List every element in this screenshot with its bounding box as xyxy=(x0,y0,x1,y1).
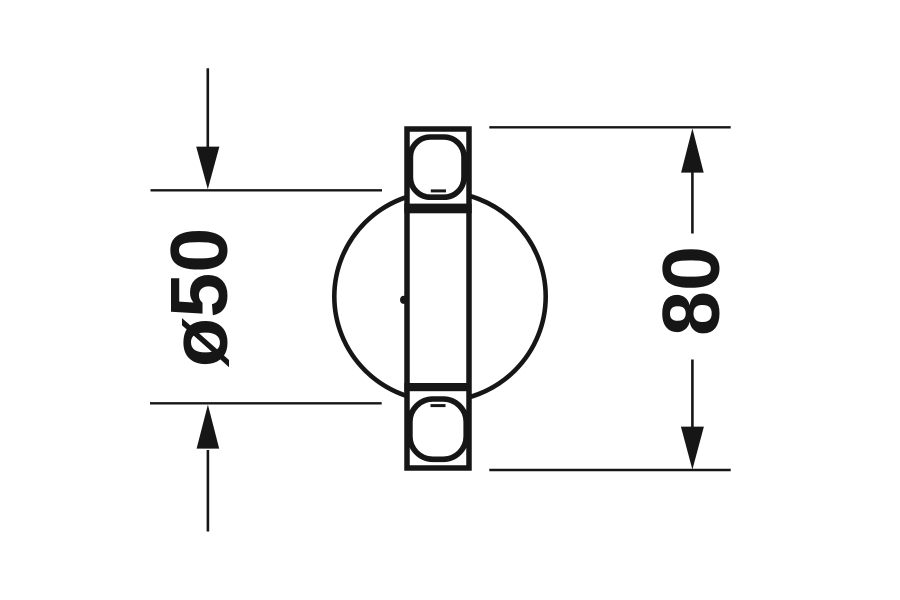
bottom knob dash xyxy=(431,404,446,407)
dim 80 top extension line xyxy=(489,126,730,128)
wall plate circle xyxy=(334,192,545,402)
svg-text:ø50: ø50 xyxy=(155,228,245,368)
top knob dash xyxy=(431,189,446,192)
dim ø50 lower arrowhead xyxy=(197,405,220,449)
center tick on left edge xyxy=(400,296,407,304)
dim ø50 bottom extension line xyxy=(150,402,382,404)
lower band xyxy=(404,383,471,391)
dim ø50 upper arrowhead xyxy=(196,147,219,190)
dim 80 upper arrow shaft xyxy=(691,170,694,234)
dim 80 bottom extension line xyxy=(489,469,730,472)
dim ø50 lower arrow shaft xyxy=(207,450,210,532)
dim 80 upper arrowhead xyxy=(681,128,704,172)
dim 80 lower arrow shaft xyxy=(691,360,694,429)
top knob xyxy=(410,137,464,197)
hook body rectangle xyxy=(407,129,469,468)
dim ø50 upper arrow shaft xyxy=(207,68,210,150)
dim ø50 top extension line xyxy=(151,189,383,191)
svg-text:80: 80 xyxy=(647,246,737,336)
bottom knob xyxy=(410,399,466,459)
upper band xyxy=(404,204,472,214)
dim 80 lower arrowhead xyxy=(681,427,704,470)
